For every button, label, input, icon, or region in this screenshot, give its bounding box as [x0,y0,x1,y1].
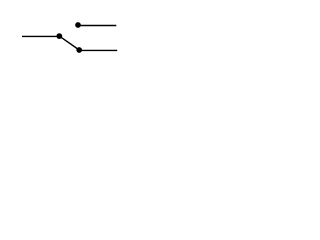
wire (lower throw lead, right) [79,49,117,51]
switch SW1 lever (thrown to lower contact) [59,36,79,50]
wire (upper throw lead, right) [78,25,116,27]
node (lower throw contact) [76,47,82,53]
node (upper throw contact) [75,22,81,28]
wire (pole lead, left) [22,35,59,37]
node (pole terminal) [56,33,62,39]
